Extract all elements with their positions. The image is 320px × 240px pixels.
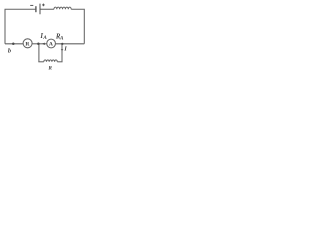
svg-text:A: A	[49, 42, 53, 48]
svg-text:I: I	[63, 45, 67, 52]
wire meter R to left corner	[5, 43, 23, 45]
svg-text:A: A	[59, 36, 64, 42]
wire top-left horizontal	[5, 8, 36, 10]
wire ammeter to mid node	[32, 43, 47, 45]
meter R circle	[23, 39, 32, 48]
battery short negative plate	[35, 6, 37, 12]
svg-text:b: b	[8, 48, 11, 55]
current arrow IA on wire (points left)	[42, 43, 45, 45]
resistor rheostat (top)	[54, 7, 71, 9]
svg-text:A: A	[42, 35, 47, 41]
junction node dot b	[12, 43, 15, 46]
battery long positive plate	[39, 4, 41, 15]
shunt branch bottom-right wire	[57, 61, 62, 63]
wire battery to rheostat	[41, 8, 54, 10]
wire left side vertical	[4, 9, 6, 44]
svg-text:R: R	[47, 65, 52, 71]
wire top-right corner and right side	[71, 9, 84, 44]
wire right corner to node	[55, 43, 84, 45]
resistor R (shunt)	[44, 60, 58, 62]
shunt branch bottom-left wire	[38, 61, 43, 63]
battery minus label	[30, 4, 33, 6]
battery cell B	[36, 4, 40, 15]
junction mid node dot	[37, 43, 40, 46]
ammeter A circle	[47, 39, 56, 48]
junction right node dot	[61, 43, 63, 45]
battery plus label	[42, 4, 45, 7]
shunt branch right vertical wire	[61, 44, 63, 62]
shunt branch left vertical wire	[38, 44, 40, 62]
current arrow I downward on shunt right wire	[61, 49, 64, 51]
